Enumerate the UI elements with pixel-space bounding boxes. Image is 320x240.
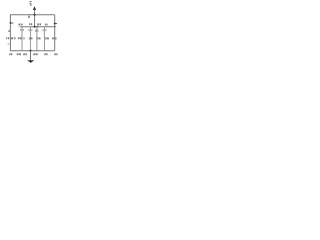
junction dot bottom rail at GND stem — [29, 50, 31, 52]
capacitor C1 branch (left, polarized) — [9, 15, 11, 51]
circuit schematic: decoupling capacitor bank between +5V rail and GND — [0, 0, 121, 64]
wire: mid bus — [20, 26, 57, 28]
wire: GND stem — [30, 51, 32, 61]
capacitor C1 plate mark — [8, 30, 10, 32]
junction dot on top rail at VCC stem — [34, 14, 36, 16]
label C5 — [45, 24, 46, 26]
wire: VCC stem down to mid bus — [34, 10, 36, 27]
ground symbol — [27, 60, 34, 63]
capacitor C6 branch (right, polarized) — [54, 15, 56, 51]
polarity + mark C6 — [55, 23, 57, 25]
wire: top rail — [10, 14, 55, 16]
capacitor C1 plate tick — [8, 43, 10, 45]
capacitor C2 branch — [21, 27, 23, 51]
junction dot mid bus at C4 branch — [37, 26, 39, 28]
value labels row mid — [14, 37, 56, 39]
polarity + mark C1 — [10, 22, 13, 24]
label C3 — [29, 23, 30, 25]
net label +5V (tiny, unreadable at this scale) — [30, 1, 32, 5]
capacitor C3 branch — [29, 27, 31, 51]
label C4 — [37, 23, 39, 25]
supply arrow (VCC symbol) — [33, 6, 36, 10]
wire: bottom rail — [10, 50, 55, 52]
capacitor C4 branch — [36, 27, 38, 51]
label C2 — [18, 24, 20, 26]
capacitor C5 branch — [43, 27, 45, 51]
value labels row bottom — [9, 53, 57, 55]
capacitor C1 value label — [6, 37, 13, 39]
junction dot mid bus at VCC stem — [34, 26, 36, 28]
name labels row above mid bus — [18, 23, 47, 25]
net label at top rail junction — [28, 16, 30, 18]
